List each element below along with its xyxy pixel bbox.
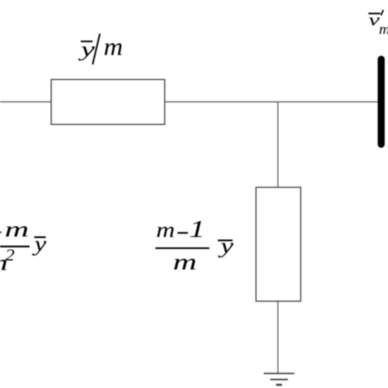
svg-text:2: 2 — [5, 246, 15, 265]
svg-text:y: y — [78, 37, 96, 61]
svg-text:m: m — [173, 249, 197, 275]
svg-text:1: 1 — [189, 217, 205, 243]
svg-text:m: m — [156, 217, 175, 242]
svg-text:y: y — [32, 231, 47, 256]
svg-text:m: m — [5, 217, 29, 242]
svg-text:y: y — [218, 233, 234, 258]
svg-text:m: m — [104, 34, 123, 61]
svg-text:m: m — [379, 22, 388, 38]
